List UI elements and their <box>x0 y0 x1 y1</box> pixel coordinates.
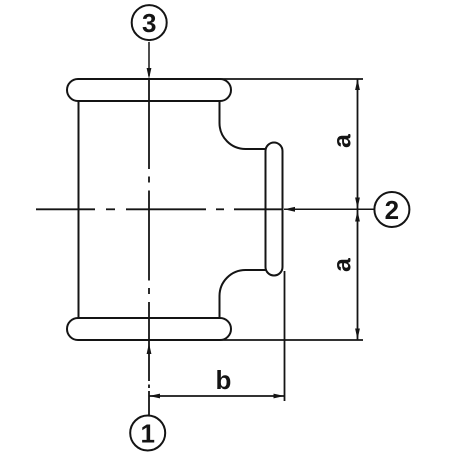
svg-text:2: 2 <box>385 195 399 225</box>
svg-text:3: 3 <box>142 8 156 38</box>
svg-text:b: b <box>216 365 232 395</box>
svg-text:a: a <box>329 257 357 272</box>
svg-text:a: a <box>329 133 357 148</box>
svg-text:1: 1 <box>140 418 154 448</box>
